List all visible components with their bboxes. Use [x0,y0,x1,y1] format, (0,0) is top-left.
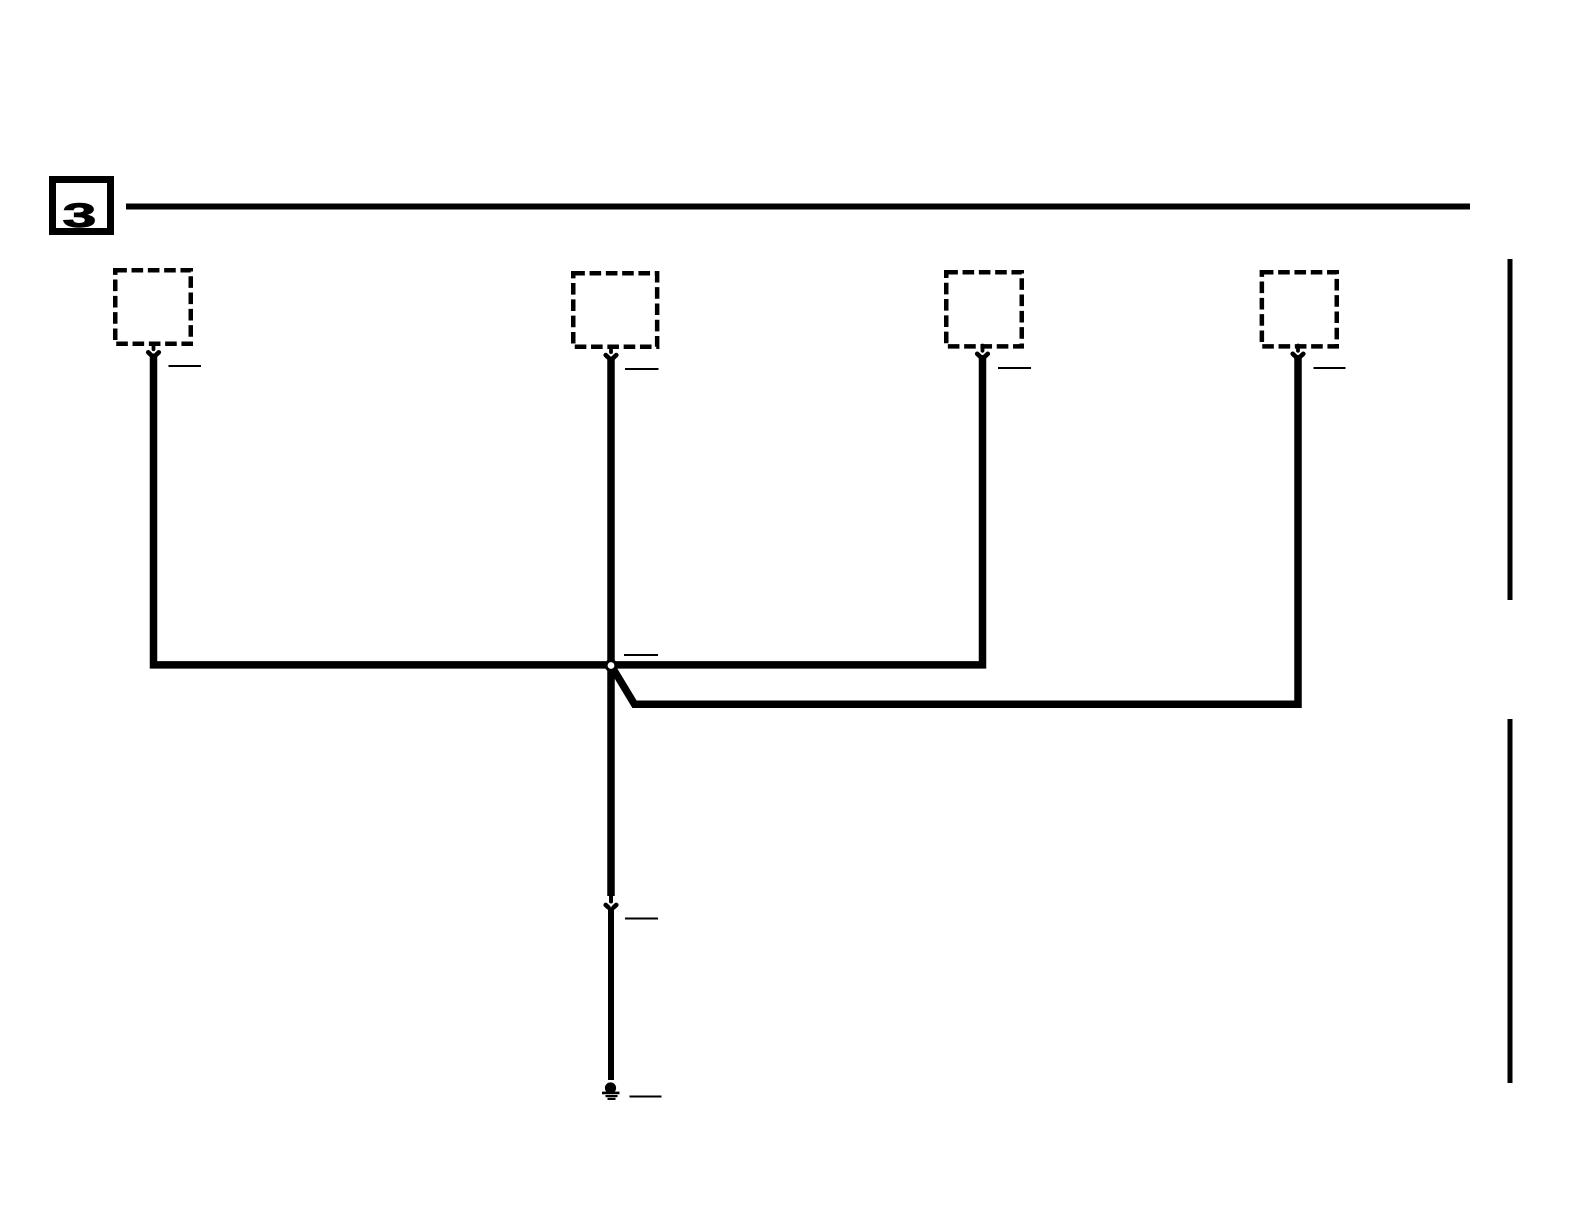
label line wire 2 [625,368,659,370]
label line junction [624,654,658,656]
connector box 1 (dashed) [115,270,191,344]
inline arrow on wire 2 [606,895,617,908]
arrow into wire 1 [148,344,159,355]
junction node [606,661,616,671]
label line wire 4 [1314,367,1346,369]
svg-text:3: 3 [63,197,97,235]
wire 1 + bus 1 + wire 3 [154,354,983,665]
page number box 3 [53,180,111,235]
wire 2 lower [608,908,614,1081]
label line ground [630,1096,662,1098]
label line inline arrow [625,918,658,920]
header rule [126,204,1470,210]
label line wire 3 [998,367,1031,369]
connector box 3 (dashed) [946,272,1022,346]
connector box 2 (dashed) [573,273,657,347]
right margin bar upper [1508,259,1513,600]
wire branch: diagonal + bus 2 + wire 4 [612,355,1298,704]
arrow into wire 2 [606,347,617,358]
wire 2 upper [607,357,615,897]
right margin bar lower [1508,719,1513,1083]
arrow into wire 3 [977,346,988,357]
ground symbol [602,1082,620,1099]
connector box 4 (dashed) [1262,272,1337,346]
arrow into wire 4 [1293,346,1304,357]
label line wire 1 [169,365,202,367]
